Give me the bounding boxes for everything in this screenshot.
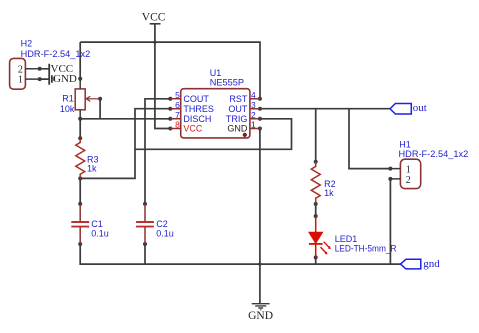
svg-text:0.1u: 0.1u <box>156 228 174 238</box>
svg-text:2: 2 <box>406 175 411 186</box>
svg-text:TRIG: TRIG <box>226 114 248 124</box>
svg-text:0.1u: 0.1u <box>91 228 109 238</box>
svg-text:OUT: OUT <box>228 104 248 114</box>
svg-text:THRES: THRES <box>183 104 214 114</box>
svg-text:RST: RST <box>229 94 248 104</box>
svg-text:4: 4 <box>251 90 256 100</box>
svg-text:GND: GND <box>227 124 248 134</box>
svg-text:H1: H1 <box>399 139 411 149</box>
svg-text:LED1: LED1 <box>335 234 358 244</box>
svg-text:HDR-F-2.54_1x2: HDR-F-2.54_1x2 <box>21 49 91 59</box>
svg-text:NE555P: NE555P <box>210 77 244 87</box>
svg-text:1k: 1k <box>87 163 97 173</box>
svg-text:GND: GND <box>248 310 273 322</box>
svg-text:DISCH: DISCH <box>183 114 211 124</box>
svg-text:VCC: VCC <box>142 11 166 23</box>
svg-text:10k: 10k <box>60 104 75 114</box>
svg-text:gnd: gnd <box>423 258 440 270</box>
svg-text:out: out <box>413 102 427 114</box>
svg-text:8: 8 <box>175 120 180 130</box>
svg-text:COUT: COUT <box>183 94 209 104</box>
svg-text:7: 7 <box>175 110 180 120</box>
svg-text:LED-TH-5mm_R: LED-TH-5mm_R <box>335 244 397 254</box>
svg-text:1: 1 <box>18 75 23 86</box>
svg-text:R1: R1 <box>62 94 74 104</box>
svg-text:6: 6 <box>175 100 180 110</box>
svg-text:1: 1 <box>406 164 411 175</box>
svg-text:1: 1 <box>251 120 256 130</box>
svg-text:H2: H2 <box>21 38 33 48</box>
svg-text:GND: GND <box>53 73 77 85</box>
svg-text:HDR-F-2.54_1x2: HDR-F-2.54_1x2 <box>399 149 469 159</box>
svg-text:5: 5 <box>175 90 180 100</box>
svg-text:VCC: VCC <box>183 124 203 134</box>
svg-text:2: 2 <box>251 110 256 120</box>
svg-text:3: 3 <box>251 100 256 110</box>
svg-text:1k: 1k <box>324 188 334 198</box>
